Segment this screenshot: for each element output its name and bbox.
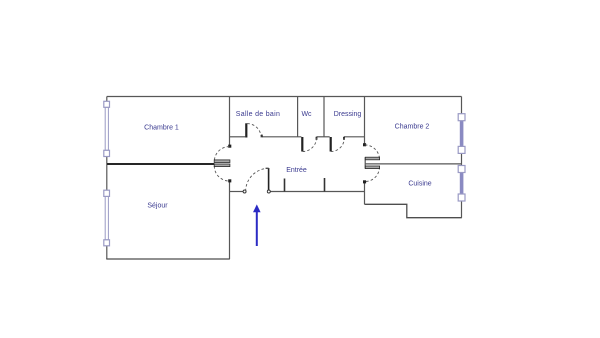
svg-text:Entrée: Entrée: [286, 167, 307, 174]
svg-text:Séjour: Séjour: [147, 203, 168, 210]
svg-text:Cuisine: Cuisine: [408, 181, 431, 188]
svg-text:Dressing: Dressing: [334, 111, 362, 118]
svg-text:Chambre 1: Chambre 1: [144, 125, 179, 132]
svg-text:Salle de bain: Salle de bain: [236, 111, 280, 118]
svg-text:Chambre 2: Chambre 2: [395, 124, 430, 131]
svg-text:Wc: Wc: [301, 111, 312, 118]
